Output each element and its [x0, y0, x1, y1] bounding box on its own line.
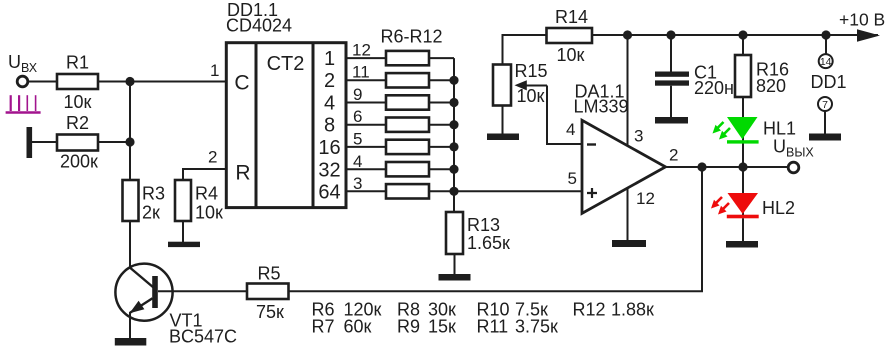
resistor R13 — [446, 212, 510, 254]
svg-text:16: 16 — [318, 137, 340, 159]
wire R16 to HL1 — [742, 97, 744, 117]
svg-text:7: 7 — [822, 99, 828, 111]
wire row R12 — [346, 190, 454, 192]
svg-text:60к: 60к — [344, 317, 372, 337]
+10 В arrow — [857, 29, 880, 41]
wire comparator output down to R5 — [289, 167, 703, 291]
emitter diagonal — [130, 298, 153, 313]
ground (VT1) — [115, 338, 147, 346]
svg-text:UВХ: UВХ — [8, 52, 38, 75]
svg-text:2: 2 — [324, 70, 335, 92]
svg-text:1.88к: 1.88к — [611, 300, 654, 320]
svg-text:10к: 10к — [64, 92, 92, 112]
node U_BX input terminal — [8, 52, 38, 87]
wire pin 12 to ground — [627, 188, 629, 240]
svg-text:R4: R4 — [195, 184, 218, 204]
wire row R9 — [346, 124, 454, 126]
wire pin 3 to rail — [627, 35, 629, 146]
svg-text:820: 820 — [756, 76, 786, 96]
svg-text:3: 3 — [353, 174, 362, 193]
input pulse waveform symbol — [6, 95, 41, 112]
summing bus — [453, 58, 455, 212]
wire input circle to R1 — [28, 81, 57, 83]
resistor R2 — [57, 113, 98, 172]
resistor R3 — [123, 180, 166, 223]
ground (R4) — [168, 242, 200, 247]
svg-text:4: 4 — [324, 92, 335, 114]
resistor R9 — [386, 118, 429, 132]
junction dot output/R5 — [697, 162, 706, 171]
svg-text:14: 14 — [820, 56, 832, 68]
svg-text:12: 12 — [636, 189, 655, 208]
svg-text:10к: 10к — [557, 45, 585, 65]
svg-text:R9: R9 — [397, 317, 420, 337]
wire row R10 — [346, 146, 454, 148]
node U_ВЫХ — [773, 137, 814, 173]
svg-text:3.75к: 3.75к — [515, 317, 558, 337]
emission arrows HL2 — [713, 197, 722, 206]
svg-text:R1: R1 — [66, 53, 89, 73]
svg-text:R5: R5 — [258, 264, 281, 284]
wire junction down to R3 — [129, 82, 131, 181]
ground (DD1 pin 7) — [809, 134, 841, 141]
junction dot output/LEDs — [738, 162, 747, 171]
emission arrows HL1 — [715, 122, 724, 131]
junction dot bus row R10 — [449, 142, 458, 151]
wire ground to R2 — [32, 141, 57, 143]
svg-text:R: R — [235, 162, 250, 185]
junction dot bus row R12 — [449, 187, 458, 196]
wire R4 to ground — [182, 221, 184, 242]
svg-text:CD4024: CD4024 — [226, 16, 292, 36]
svg-text:1.65к: 1.65к — [467, 233, 510, 253]
svg-text:2: 2 — [669, 146, 678, 165]
junction dot rail pin3 — [623, 30, 632, 39]
ground (input, wall bar) — [27, 127, 33, 158]
wire R2 to junction — [98, 141, 130, 143]
resistor R7 — [386, 73, 429, 87]
resistor R10 — [386, 140, 429, 154]
wire R15 wiper to comparator - input — [547, 86, 582, 145]
svg-text:HL2: HL2 — [762, 198, 795, 218]
wire row R7 — [346, 79, 454, 81]
resistor R11 — [386, 162, 429, 176]
DD1 power pin 7 — [818, 97, 832, 134]
value table row 2 — [312, 317, 559, 337]
junction dot R1/R3 — [125, 77, 134, 86]
wire R14 left to R15 top — [503, 35, 547, 65]
emitter arrowhead — [130, 301, 145, 313]
svg-text:R13: R13 — [467, 215, 500, 235]
svg-text:HL1: HL1 — [763, 119, 796, 139]
svg-text:UВЫХ: UВЫХ — [773, 137, 814, 160]
svg-text:4: 4 — [353, 152, 362, 171]
wire row R6 — [346, 57, 454, 59]
svg-text:9: 9 — [353, 85, 362, 104]
svg-text:+10 В: +10 В — [839, 10, 885, 30]
svg-text:R11: R11 — [477, 317, 509, 337]
resistor R14 — [547, 7, 593, 65]
svg-text:R15: R15 — [515, 61, 548, 81]
svg-text:R14: R14 — [555, 7, 588, 27]
plus sign — [587, 188, 597, 198]
counter DD1.1 CD4024 — [208, 0, 346, 208]
junction dot bus row R11 — [449, 165, 458, 174]
power rail +10 V — [592, 34, 878, 36]
svg-text:32: 32 — [318, 159, 340, 181]
value table row 1 — [312, 300, 655, 320]
junction dot bus row R9 — [449, 120, 458, 129]
ground (HL2) — [726, 241, 758, 248]
svg-text:LM339: LM339 — [574, 97, 629, 117]
svg-text:8: 8 — [324, 115, 335, 137]
wire R13 to ground — [454, 254, 456, 274]
wire R1 to counter C input — [98, 81, 226, 83]
svg-text:R12: R12 — [573, 300, 606, 320]
wire R3 to transistor collector — [129, 221, 131, 269]
resistor R16 — [735, 35, 789, 97]
wire R15 to ground — [502, 106, 504, 134]
base bar — [152, 276, 158, 308]
output wire comparator to U_ВЫХ — [666, 166, 789, 168]
svg-text:BC547C: BC547C — [169, 327, 237, 347]
svg-text:15к: 15к — [428, 317, 456, 337]
resistor R4 — [175, 180, 223, 223]
wire row R11 — [346, 168, 454, 170]
svg-text:200к: 200к — [60, 152, 98, 172]
junction dot rail DD1 pin14 — [821, 30, 830, 39]
resistor R1 — [57, 53, 98, 113]
svg-text:12: 12 — [352, 41, 371, 60]
wire bus to comparator + input — [454, 190, 582, 192]
svg-text:R6-R12: R6-R12 — [381, 27, 443, 47]
svg-text:3: 3 — [634, 127, 643, 146]
capacitor C1 — [655, 35, 734, 117]
collector diagonal — [130, 268, 154, 288]
svg-text:11: 11 — [352, 63, 370, 82]
svg-text:5: 5 — [568, 169, 577, 188]
svg-text:1: 1 — [210, 61, 219, 80]
ground (R15) — [487, 134, 519, 141]
svg-text:10к: 10к — [195, 203, 223, 223]
ground (C1) — [655, 117, 688, 124]
svg-text:CT2: CT2 — [267, 53, 305, 75]
junction dot rail C1 — [666, 30, 675, 39]
wire HL2 to ground — [742, 218, 744, 241]
svg-text:C: C — [234, 72, 249, 95]
wiper arrow — [526, 85, 547, 87]
svg-text:R3: R3 — [142, 184, 165, 204]
svg-text:6: 6 — [353, 107, 362, 126]
resistor R8 — [386, 95, 429, 109]
junction dot bus row R7 — [449, 76, 458, 85]
wire emitter to ground — [129, 312, 131, 338]
svg-text:4: 4 — [566, 120, 575, 139]
svg-text:1: 1 — [324, 48, 335, 70]
LED HL2 (red) — [711, 167, 795, 218]
wire R5 to transistor base — [158, 290, 247, 292]
svg-text:2: 2 — [208, 148, 217, 167]
ground (pin 12) — [612, 240, 646, 247]
LED HL1 (green) — [713, 117, 797, 167]
svg-text:R2: R2 — [66, 113, 89, 133]
wire R4 to counter R input — [183, 169, 226, 180]
ground (R13) — [439, 274, 471, 281]
potentiometer R15 — [493, 61, 548, 106]
DD1 power pin 14 — [819, 35, 833, 68]
svg-text:5: 5 — [353, 129, 362, 148]
wire row R8 — [346, 102, 454, 104]
minus sign — [587, 143, 596, 145]
junction dot R2/R3 — [125, 137, 134, 146]
comparator DA1.1 LM339 — [566, 82, 678, 214]
resistor R5 — [247, 264, 289, 323]
transistor VT1 — [115, 264, 237, 347]
junction dot rail R16 — [738, 30, 747, 39]
resistor R6 — [386, 51, 429, 65]
svg-text:64: 64 — [318, 181, 340, 203]
svg-text:R7: R7 — [312, 317, 335, 337]
svg-text:DD1: DD1 — [811, 72, 847, 92]
svg-text:2к: 2к — [142, 203, 160, 223]
resistor R12 — [386, 184, 429, 198]
junction dot bus row R8 — [449, 98, 458, 107]
svg-text:10к: 10к — [517, 86, 545, 106]
svg-text:220н: 220н — [694, 78, 734, 98]
svg-text:75к: 75к — [256, 302, 284, 322]
